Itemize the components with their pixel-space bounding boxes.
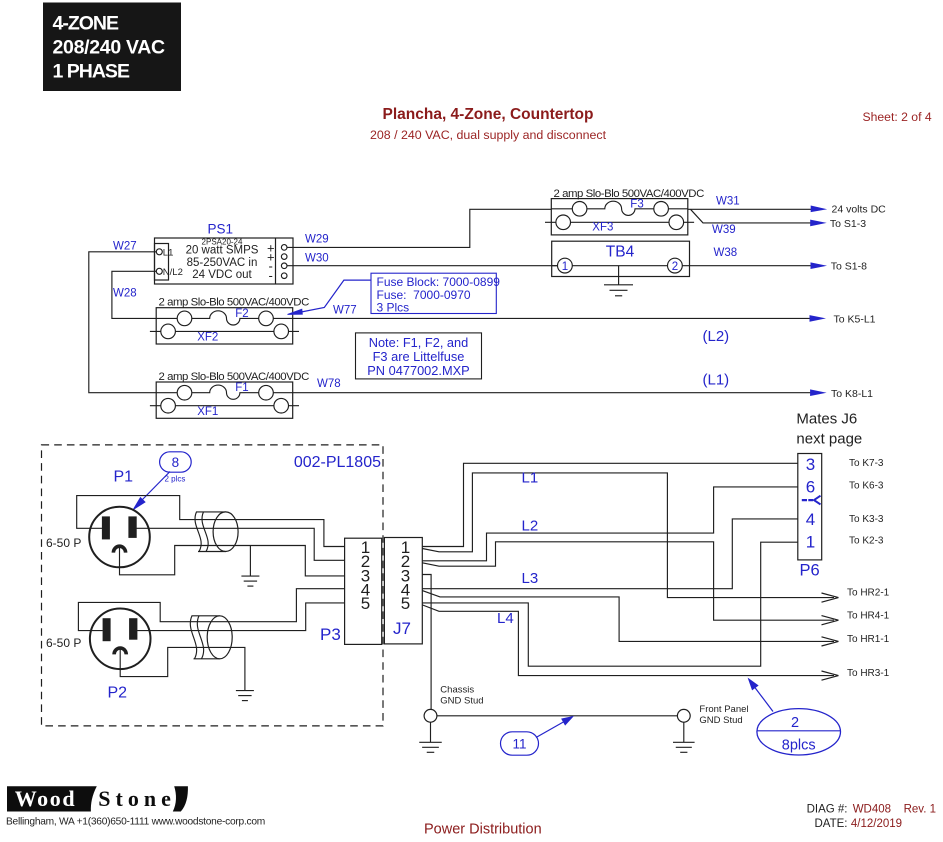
front panel ground stud	[677, 704, 748, 726]
svg-text:W27: W27	[113, 241, 137, 253]
svg-text:To S1-3: To S1-3	[830, 218, 866, 230]
ground symbol (P2 shield)	[236, 691, 254, 701]
svg-text:PN 0477002.MXP: PN 0477002.MXP	[367, 363, 469, 378]
svg-text:3 Plcs: 3 Plcs	[377, 300, 410, 314]
wire W30	[287, 265, 558, 267]
svg-text:J7: J7	[393, 619, 411, 638]
connector P3	[345, 538, 382, 645]
arrow to HR4-1	[822, 610, 890, 625]
wire W27 label	[113, 241, 137, 253]
P6 polarization mark	[802, 496, 821, 505]
svg-text:F1: F1	[235, 382, 248, 394]
wire W39 to S1-3	[691, 209, 867, 230]
plug P1 label	[114, 468, 134, 485]
svg-text:Note: F1, F2, and: Note: F1, F2, and	[369, 335, 469, 350]
callout arrow to XF2	[288, 280, 372, 314]
svg-text:L4: L4	[497, 610, 514, 627]
plug P2 (6-50P)	[46, 609, 151, 670]
svg-text:XF1: XF1	[197, 406, 218, 418]
svg-text:DATE:: DATE:	[814, 818, 847, 830]
svg-text:4-ZONE: 4-ZONE	[53, 13, 120, 35]
wire W77 label	[333, 304, 357, 316]
svg-text:20 watt SMPS: 20 watt SMPS	[186, 245, 259, 257]
svg-text:24 VDC out: 24 VDC out	[192, 269, 252, 281]
net label (L1)	[703, 372, 730, 389]
svg-text:2: 2	[672, 261, 678, 273]
svg-text:To HR2-1: To HR2-1	[847, 587, 890, 598]
J7 pin4 branch wire to HR1-1	[422, 591, 834, 642]
svg-text:Bellingham, WA +1(360)650-1111: Bellingham, WA +1(360)650-1111 www.woods…	[6, 817, 265, 828]
sheet title	[370, 106, 607, 142]
balloon 8 arrow to P1	[133, 472, 170, 510]
wire W28 label	[113, 288, 137, 300]
fuse holder XF3 with fuse F3	[545, 198, 694, 235]
svg-text:2 amp Slo-Blo 500VAC/400VDC: 2 amp Slo-Blo 500VAC/400VDC	[159, 297, 310, 309]
svg-text:L2: L2	[522, 518, 539, 535]
svg-text:To K7-3: To K7-3	[849, 458, 884, 469]
enclosure label 002-PL1805	[294, 454, 381, 471]
svg-text:To K3-3: To K3-3	[849, 514, 884, 525]
balloon 8 (2 plcs)	[160, 452, 192, 484]
svg-text:Sheet: 2 of 4: Sheet: 2 of 4	[863, 110, 932, 124]
svg-text:1: 1	[562, 261, 568, 273]
chassis ground stud	[424, 685, 483, 723]
net L1 wire to K8-L1	[293, 388, 873, 400]
connector P3 label	[320, 625, 341, 644]
connector P6 label	[800, 562, 820, 580]
svg-text:L3: L3	[522, 570, 539, 587]
svg-text:N/L2: N/L2	[163, 267, 183, 278]
wire W39 label	[712, 224, 736, 236]
svg-text:8: 8	[172, 455, 180, 470]
connector P6	[798, 454, 822, 560]
fuse holder XF1 with fuse F1	[150, 382, 299, 418]
svg-text:To K5-L1: To K5-L1	[834, 313, 876, 325]
svg-text:P1: P1	[114, 468, 134, 485]
plug P1 ground wire to P3 pin3	[120, 546, 345, 576]
plug P2 ground wire	[120, 647, 245, 690]
svg-text:5: 5	[361, 594, 370, 613]
svg-text:-: -	[269, 268, 273, 283]
svg-text:F2: F2	[235, 308, 248, 320]
sheet number	[863, 110, 932, 124]
connector J7	[384, 538, 422, 644]
svg-text:Wood: Wood	[15, 786, 76, 811]
svg-text:002-PL1805: 002-PL1805	[294, 454, 381, 471]
svg-text:W39: W39	[712, 224, 736, 236]
net label L2	[522, 518, 539, 535]
balloon 11	[501, 732, 539, 755]
svg-text:1 PHASE: 1 PHASE	[53, 61, 130, 83]
svg-text:24 volts DC: 24 volts DC	[832, 204, 887, 216]
net label (L2)	[703, 328, 730, 345]
ground symbol under front panel stud	[673, 722, 695, 752]
svg-text:11: 11	[512, 737, 526, 752]
company address line	[6, 817, 265, 828]
svg-text:6-50 P: 6-50 P	[46, 536, 81, 550]
svg-text:3: 3	[806, 455, 815, 474]
drawing title: Power Distribution	[424, 822, 542, 838]
arrow to HR2-1	[822, 587, 890, 602]
svg-text:W78: W78	[317, 378, 341, 390]
svg-text:8plcs: 8plcs	[782, 738, 816, 754]
dashed enclosure 002-PL1805	[42, 445, 384, 726]
svg-text:W31: W31	[716, 196, 740, 208]
net L2 wire to K5-L1	[293, 313, 876, 325]
svg-text:W38: W38	[714, 247, 738, 259]
svg-text:L1: L1	[522, 470, 539, 487]
svg-text:WD408: WD408	[853, 804, 891, 816]
plug P2 hot wire B to P3 pin5	[137, 603, 344, 631]
svg-text:Stone: Stone	[98, 786, 176, 811]
svg-text:Front Panel: Front Panel	[699, 704, 748, 715]
svg-text:F3 are Littelfuse: F3 are Littelfuse	[373, 349, 465, 364]
net label L1	[522, 470, 539, 487]
connector P6 note: Mates J6 next page	[796, 411, 862, 448]
ground symbol under chassis stud	[419, 722, 442, 752]
svg-text:XF2: XF2	[197, 331, 218, 343]
plug P2 label	[108, 684, 128, 701]
svg-text:(L1): (L1)	[703, 372, 730, 389]
wire W38 label	[714, 247, 738, 259]
svg-text:P2: P2	[108, 684, 128, 701]
wire W28	[112, 271, 156, 318]
plug P2 hot wire A to P3 pin4	[78, 589, 344, 631]
svg-text:Chassis: Chassis	[440, 685, 474, 696]
terminal block TB4	[552, 241, 690, 276]
P1 ground stub	[249, 546, 251, 576]
fuse block callout note	[371, 273, 500, 314]
svg-text:208/240 VAC: 208/240 VAC	[53, 37, 166, 59]
J7 pin2 wire L2 to P6 pin6	[422, 487, 798, 561]
wire W27	[89, 252, 157, 393]
svg-text:208 / 240 VAC, dual supply and: 208 / 240 VAC, dual supply and disconnec…	[370, 128, 607, 142]
wire W38 to S1-8	[690, 261, 868, 273]
svg-text:4/12/2019: 4/12/2019	[851, 818, 902, 830]
J7 pin5 branch wire to HR3-1	[422, 605, 834, 676]
plug P1 hot wire A to P3 pin1	[77, 496, 345, 547]
connector J7 label	[393, 619, 411, 638]
svg-text:1: 1	[806, 533, 815, 552]
cable shield P2	[190, 616, 232, 659]
balloon 2 arrow to HR3-1 wire	[749, 679, 774, 712]
fuse holder XF1 caption	[159, 371, 310, 383]
svg-text:Rev. 1: Rev. 1	[904, 804, 936, 816]
wire W31 to 24 volts DC	[688, 204, 886, 216]
bonding wire chassis to front panel	[437, 715, 678, 717]
ground symbol under TB4	[604, 266, 633, 296]
svg-text:L1: L1	[163, 247, 174, 258]
arrow to HR1-1	[822, 634, 890, 646]
svg-text:P3: P3	[320, 625, 341, 644]
littelfuse note box	[356, 333, 482, 379]
svg-text:To HR3-1: To HR3-1	[847, 668, 890, 679]
drawing number block	[807, 804, 936, 831]
fuse holder XF2 with fuse F2	[150, 308, 299, 344]
svg-text:W77: W77	[333, 304, 357, 316]
svg-text:2 plcs: 2 plcs	[165, 474, 186, 483]
svg-text:85-250VAC in: 85-250VAC in	[187, 257, 258, 269]
svg-text:GND Stud: GND Stud	[440, 696, 483, 707]
svg-text:PS1: PS1	[208, 222, 234, 237]
svg-text:To HR4-1: To HR4-1	[847, 610, 890, 621]
svg-text:To HR1-1: To HR1-1	[847, 634, 890, 645]
balloon 11 arrow to bonding wire	[536, 717, 573, 738]
wire W30 label	[305, 252, 329, 264]
svg-text:(L2): (L2)	[703, 328, 730, 345]
wire W31 label	[716, 196, 740, 208]
svg-text:DIAG #:: DIAG #:	[807, 804, 848, 816]
J7 pin1 branch wire L1 to HR2-1	[422, 473, 834, 598]
svg-text:Mates J6: Mates J6	[796, 411, 857, 428]
J7 pin2 branch wire to HR4-1	[422, 542, 834, 620]
ground symbol (P1 shield)	[241, 576, 259, 586]
svg-text:W30: W30	[305, 252, 329, 264]
svg-text:To S1-8: To S1-8	[831, 261, 867, 273]
balloon 2 8plcs	[757, 709, 841, 755]
pin destination labels K7/K6/K3/K2	[849, 458, 884, 547]
svg-text:6: 6	[806, 478, 815, 497]
net label L4	[497, 610, 514, 627]
svg-text:To K2-3: To K2-3	[849, 536, 884, 547]
plug P1 hot wire B to P3 pin2	[137, 528, 345, 560]
cable shield P1	[195, 512, 238, 552]
wire W78 label	[317, 378, 341, 390]
woodstone logo	[7, 786, 188, 811]
svg-text:6-50 P: 6-50 P	[46, 636, 81, 650]
plug P1 (6-50P)	[46, 507, 150, 568]
svg-text:XF3: XF3	[592, 222, 613, 234]
svg-text:To K8-L1: To K8-L1	[831, 388, 873, 400]
svg-text:5: 5	[401, 594, 410, 613]
svg-text:2: 2	[791, 715, 799, 731]
svg-text:To K6-3: To K6-3	[849, 481, 884, 492]
svg-text:Power Distribution: Power Distribution	[424, 822, 542, 838]
svg-text:P6: P6	[800, 562, 820, 580]
net label L3	[522, 570, 539, 587]
power supply PS1	[155, 237, 294, 284]
wire W29	[287, 209, 551, 247]
fuse holder XF3 caption	[554, 188, 705, 200]
wire W29 label	[305, 233, 329, 245]
power supply PS1 label	[208, 222, 234, 237]
svg-text:Plancha, 4-Zone, Countertop: Plancha, 4-Zone, Countertop	[383, 106, 594, 123]
J7 pin4 wire L3 to P6 pin4	[422, 519, 798, 589]
J7 pin5 wire to P6 pin1	[422, 542, 798, 666]
svg-text:4: 4	[806, 510, 815, 529]
svg-text:W29: W29	[305, 233, 329, 245]
J7 pin3 ground wire to chassis stud	[422, 575, 431, 710]
fuse holder XF2 caption	[159, 297, 310, 309]
svg-text:GND Stud: GND Stud	[699, 715, 742, 726]
svg-text:TB4: TB4	[606, 244, 635, 261]
J7 pin1 wire to P6 pin3	[422, 463, 798, 546]
svg-text:W28: W28	[113, 288, 137, 300]
svg-text:F3: F3	[630, 198, 643, 210]
header label box: 4-ZONE 208/240 VAC 1 PHASE	[43, 3, 181, 92]
svg-text:next page: next page	[796, 431, 862, 448]
arrow to HR3-1	[822, 668, 890, 680]
